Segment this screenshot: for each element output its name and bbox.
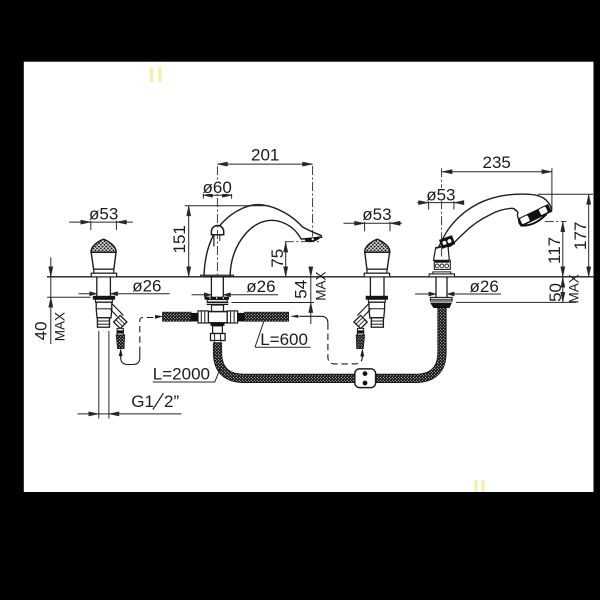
second valve body	[369, 302, 385, 318]
second handle shank below deck	[370, 277, 384, 296]
svg-text:MAX: MAX	[567, 274, 582, 303]
dim o26 spout	[192, 294, 212, 296]
svg-text:ø26: ø26	[246, 277, 275, 296]
second valve angled outlet branch	[357, 304, 370, 317]
second valve bottom cap	[371, 318, 383, 327]
spout aerator	[305, 236, 320, 242]
tee right hose fitting	[238, 313, 245, 322]
dim G1/2 line	[78, 413, 182, 415]
right routing arrow into L=600 hose	[291, 315, 298, 318]
tee bottom pipe	[213, 326, 223, 334]
tee left coupling nut	[198, 311, 208, 323]
second handle lower band	[367, 269, 387, 273]
hand shower body	[437, 194, 551, 250]
face band group	[518, 204, 552, 226]
dim 54 ref line	[232, 302, 315, 304]
left handle washer	[96, 299, 113, 302]
svg-text:ø60: ø60	[203, 178, 232, 197]
left valve thread connector	[117, 328, 123, 335]
dim 50 ref line	[456, 301, 576, 303]
label o53 shower backing	[426, 188, 458, 201]
svg-text:MAX: MAX	[53, 312, 68, 341]
svg-text:ø53: ø53	[426, 186, 455, 205]
svg-text:MAX: MAX	[314, 271, 329, 300]
tee left hose (from left valve)	[163, 312, 192, 321]
dim 40 line	[50, 257, 52, 344]
svg-text:40: 40	[32, 321, 51, 340]
spout base flange	[201, 275, 234, 276]
dim 75	[285, 242, 287, 277]
spout body	[204, 205, 322, 277]
second handle crystal dome	[365, 239, 390, 252]
dim 201	[217, 163, 312, 165]
left handle body	[91, 252, 116, 269]
tee body	[208, 312, 227, 323]
neck separation line	[514, 209, 518, 213]
left valve hose coupling nut	[114, 315, 127, 328]
svg-text:177: 177	[571, 222, 590, 250]
hose connector weight	[355, 369, 376, 388]
right routing dashed path	[328, 323, 362, 364]
L=600 hose	[245, 312, 289, 321]
left valve body	[96, 302, 112, 318]
face bottom rim	[521, 214, 547, 225]
dim 235	[442, 171, 552, 173]
svg-text:151: 151	[170, 225, 189, 253]
L=2000 leader	[153, 368, 221, 382]
tee bottom neck	[214, 341, 221, 343]
second handle base flange	[364, 273, 389, 277]
second handle mounting nut dark	[366, 296, 388, 299]
dim o26 holder	[415, 293, 436, 295]
shower hose braid	[218, 306, 443, 379]
svg-text:235: 235	[483, 153, 511, 172]
spout dark washer	[207, 302, 229, 305]
holder cone cup	[434, 245, 450, 260]
left routing dashed path	[121, 353, 140, 365]
left handle mounting nut dark	[93, 296, 115, 299]
second valve short hose (cut)	[356, 335, 364, 349]
svg-text:G1: G1	[131, 392, 154, 411]
svg-text:75: 75	[268, 249, 287, 268]
second handle washer	[368, 299, 385, 302]
svg-text:L=600: L=600	[260, 330, 308, 349]
svg-text:L=2000: L=2000	[153, 365, 210, 384]
dim 151	[188, 206, 190, 277]
spout outlet horizontal centerline	[285, 241, 319, 243]
svg-text:ø53: ø53	[362, 205, 391, 224]
dim o60	[203, 194, 232, 196]
holder bead ring	[434, 260, 450, 269]
left valve short hose (cut)	[116, 335, 124, 349]
spout outlet vertical centerline	[312, 166, 314, 237]
holder centerline	[441, 168, 443, 256]
dim G1/2 ext lines	[98, 331, 100, 419]
spout centerline	[216, 166, 218, 276]
L=600 leader	[255, 321, 311, 347]
watermark top	[150, 67, 161, 82]
svg-text:2”: 2”	[164, 392, 179, 411]
left routing arrow into tee hose	[155, 317, 157, 319]
svg-text:201: 201	[251, 146, 279, 165]
spout neck to tee	[212, 305, 224, 312]
tee left hose fitting	[191, 313, 198, 322]
tee bottom collar	[211, 323, 225, 326]
tee bottom hex nut	[211, 334, 226, 341]
drain knob ball behind spout	[211, 225, 223, 234]
second handle body	[365, 252, 390, 269]
right routing arrow into second valve hose	[361, 351, 363, 357]
dim 177	[588, 194, 590, 276]
dim o53 left: line	[69, 221, 133, 223]
shower face centerline	[545, 221, 567, 223]
holder locknut dark	[430, 303, 452, 308]
label o60 backing	[202, 181, 233, 194]
holder washer	[430, 297, 452, 301]
spout mounting nut dark	[205, 297, 230, 300]
second valve hose coupling nut	[354, 315, 367, 328]
dim 40 ref line	[47, 296, 91, 298]
white drawing sheet	[24, 62, 594, 492]
second valve thread connector	[357, 328, 363, 335]
spout washer	[207, 300, 227, 302]
svg-text:50: 50	[546, 283, 565, 302]
dim 177 extension	[538, 193, 593, 195]
tee right coupling nut	[227, 311, 237, 323]
svg-text:54: 54	[292, 280, 311, 299]
dim o53 shower	[417, 202, 463, 204]
left valve angled outlet branch	[111, 304, 124, 317]
holder base on deck	[429, 274, 454, 277]
svg-text:117: 117	[545, 237, 564, 264]
deck line	[47, 276, 593, 278]
left handle base flange	[91, 273, 116, 277]
watermark bottom	[474, 480, 484, 492]
dim o26 left	[79, 293, 97, 295]
dim o53 second handle	[344, 222, 403, 224]
svg-text:ø26: ø26	[132, 276, 161, 295]
left valve bottom cap	[97, 318, 109, 327]
right routing path: solid lead from L=600 hose	[299, 316, 328, 323]
spout shank below deck	[211, 277, 223, 297]
dim 50	[562, 277, 564, 303]
shower hose outline	[218, 306, 443, 379]
grip knurl band	[439, 235, 455, 249]
dim 117	[562, 222, 564, 277]
holder below-deck shank	[436, 277, 447, 297]
left handle crystal dome	[91, 239, 116, 252]
dim 54 line	[310, 277, 312, 324]
dim 151 extension line	[185, 205, 270, 207]
svg-text:ø26: ø26	[470, 277, 499, 296]
face lower-left wedge	[519, 218, 526, 226]
svg-text:ø53: ø53	[89, 205, 118, 224]
left handle shank below deck	[97, 277, 111, 296]
left handle lower band	[94, 269, 114, 273]
left routing arrow into valve hose	[120, 351, 122, 358]
